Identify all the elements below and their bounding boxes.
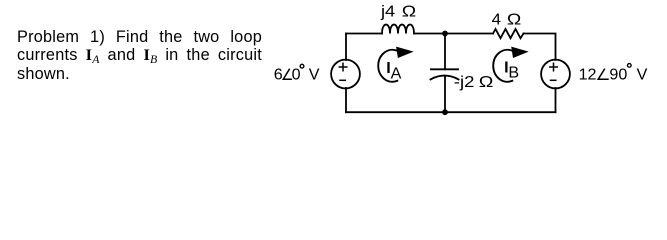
voltage source V1 circle	[331, 60, 360, 89]
angle symbol right	[598, 69, 609, 80]
svg-text:V: V	[309, 65, 320, 83]
resistor R1 zigzag	[493, 29, 524, 38]
degree mark right	[627, 64, 631, 68]
svg-text:B: B	[508, 64, 519, 82]
loop current IA arrowhead	[396, 47, 414, 58]
svg-text:4: 4	[492, 11, 501, 29]
svg-text:Ω: Ω	[507, 11, 521, 29]
capacitor C1 top plate	[431, 68, 458, 70]
problem statement text	[17, 29, 262, 84]
svg-text:j4: j4	[380, 2, 395, 20]
wire top-left horizontal	[346, 33, 382, 35]
svg-text:V: V	[637, 66, 648, 84]
svg-text:0: 0	[292, 65, 301, 83]
node junction dot bottom	[442, 109, 448, 115]
V1 plus sign	[339, 63, 347, 70]
V2 plus sign	[550, 63, 558, 70]
wire left branch bottom	[345, 88, 347, 112]
loop current IA arc	[378, 50, 397, 82]
svg-text:A: A	[391, 64, 402, 82]
degree mark left	[300, 64, 304, 68]
loop current IB arrowhead	[511, 47, 529, 58]
wire left branch top	[345, 34, 347, 61]
svg-text:12: 12	[579, 66, 597, 84]
svg-text:6: 6	[274, 65, 283, 83]
wire middle branch top	[444, 34, 446, 70]
inductor L1 coil	[382, 25, 414, 34]
svg-text:Ω: Ω	[479, 73, 494, 91]
wire top-right horizontal	[524, 34, 556, 61]
wire top-middle horizontal	[414, 33, 493, 35]
node junction dot top	[442, 31, 448, 37]
capacitor C1 curved plate	[431, 76, 459, 80]
voltage source V2 circle	[541, 60, 570, 89]
wire right branch bottom	[555, 88, 557, 112]
angle symbol left	[283, 69, 292, 80]
svg-text:Ω: Ω	[402, 3, 416, 21]
wire middle branch bottom	[444, 76, 446, 112]
loop current IB arc	[493, 50, 512, 82]
svg-text:90: 90	[609, 66, 627, 84]
V1 minus sign	[340, 79, 345, 81]
wire bottom horizontal	[346, 111, 556, 113]
svg-text:-j2: -j2	[454, 73, 475, 91]
V2 minus sign	[551, 79, 556, 81]
